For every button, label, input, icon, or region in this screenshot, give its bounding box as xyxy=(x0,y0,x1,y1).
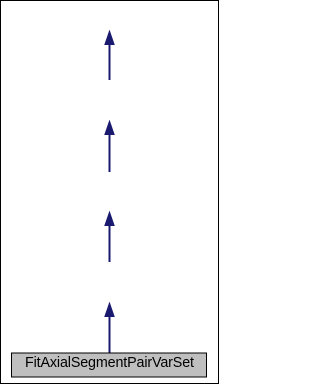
class node box FitAxialSegmentPairVarSet xyxy=(12,353,207,377)
inheritance arrow 1 (topmost) xyxy=(104,30,115,80)
image border frame xyxy=(1,1,219,384)
inheritance arrow 2 xyxy=(104,120,115,172)
svg-text:FitAxialSegmentPairVarSet: FitAxialSegmentPairVarSet xyxy=(25,355,194,371)
inheritance arrow 4 (bottom) xyxy=(104,302,115,353)
inheritance arrow 3 xyxy=(104,211,115,262)
